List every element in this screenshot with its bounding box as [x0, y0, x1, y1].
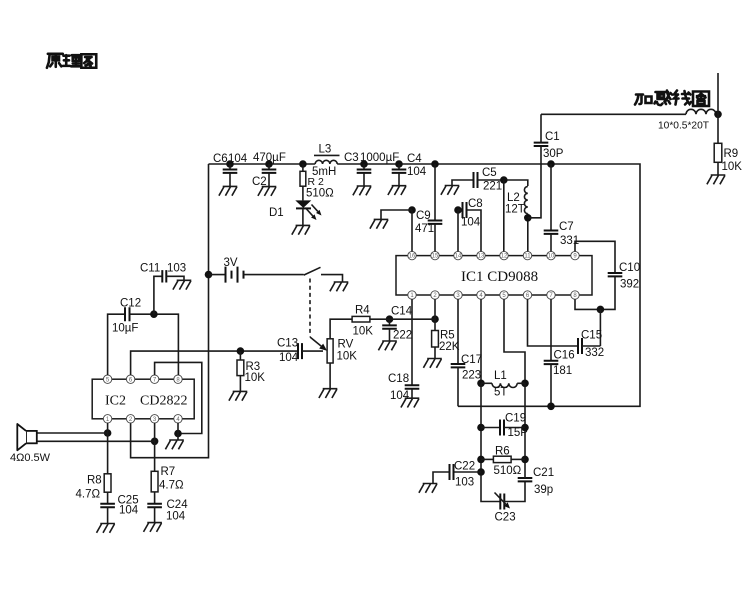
svg-text:IC2: IC2	[105, 394, 126, 409]
svg-text:16: 16	[409, 254, 416, 260]
svg-text:14: 14	[455, 254, 462, 260]
svg-text:10K: 10K	[337, 351, 358, 363]
svg-text:C14: C14	[391, 306, 413, 318]
svg-text:C2: C2	[252, 176, 267, 188]
svg-text:C16: C16	[554, 350, 575, 362]
svg-text:221: 221	[483, 181, 502, 193]
svg-text:39p: 39p	[534, 484, 553, 496]
svg-text:C15: C15	[581, 330, 602, 342]
svg-text:C12: C12	[120, 298, 141, 310]
svg-text:4Ω0.5W: 4Ω0.5W	[10, 452, 51, 464]
svg-text:R5: R5	[440, 330, 455, 342]
svg-text:C23: C23	[495, 512, 516, 524]
svg-text:10*0.5*20T: 10*0.5*20T	[658, 121, 709, 132]
svg-text:L3: L3	[319, 144, 332, 156]
svg-text:C13: C13	[277, 338, 298, 350]
svg-text:22K: 22K	[439, 341, 460, 353]
svg-text:R 2: R 2	[308, 176, 325, 188]
svg-text:IC1 CD9088: IC1 CD9088	[461, 269, 538, 285]
svg-text:470µF: 470µF	[253, 152, 286, 164]
svg-text:104: 104	[228, 153, 248, 165]
svg-text:C18: C18	[388, 373, 409, 385]
svg-text:C21: C21	[533, 467, 554, 479]
svg-text:12: 12	[501, 254, 508, 260]
svg-text:R7: R7	[161, 466, 176, 478]
svg-text:10µF: 10µF	[112, 323, 138, 335]
svg-text:C19: C19	[505, 413, 526, 425]
svg-text:104: 104	[390, 390, 410, 402]
svg-text:3V: 3V	[224, 257, 238, 269]
svg-text:104: 104	[166, 511, 186, 523]
svg-text:30P: 30P	[543, 148, 564, 160]
svg-text:103: 103	[455, 477, 474, 489]
svg-text:RV: RV	[338, 339, 354, 351]
svg-text:392: 392	[620, 279, 639, 291]
svg-text:103: 103	[167, 263, 186, 275]
svg-text:1000µF: 1000µF	[360, 152, 399, 164]
svg-text:10K: 10K	[245, 372, 266, 384]
svg-text:C6: C6	[213, 153, 228, 165]
svg-text:R4: R4	[355, 305, 370, 317]
svg-text:C7: C7	[559, 221, 574, 233]
svg-text:11: 11	[524, 254, 531, 260]
svg-text:R8: R8	[87, 475, 102, 487]
svg-text:181: 181	[553, 365, 572, 377]
svg-text:C1: C1	[545, 131, 560, 143]
svg-text:R6: R6	[495, 446, 510, 458]
svg-text:5T: 5T	[494, 387, 507, 399]
svg-text:104: 104	[279, 352, 299, 364]
svg-text:223: 223	[462, 370, 481, 382]
svg-text:C17: C17	[461, 354, 482, 366]
svg-text:222: 222	[393, 330, 412, 342]
svg-text:10K: 10K	[722, 161, 743, 173]
svg-text:C4: C4	[407, 153, 422, 165]
svg-text:CD2822: CD2822	[140, 394, 187, 409]
svg-text:471: 471	[415, 223, 434, 235]
svg-text:104: 104	[407, 166, 427, 178]
svg-text:332: 332	[585, 347, 604, 359]
svg-text:15P: 15P	[508, 427, 529, 439]
svg-text:4.7Ω: 4.7Ω	[76, 489, 101, 501]
svg-text:10: 10	[548, 254, 555, 260]
svg-text:C10: C10	[619, 262, 640, 274]
svg-text:C24: C24	[167, 499, 189, 511]
svg-text:104: 104	[461, 217, 481, 229]
svg-text:C22: C22	[454, 461, 475, 473]
svg-text:4.7Ω: 4.7Ω	[159, 480, 184, 492]
svg-text:10K: 10K	[353, 326, 374, 338]
svg-text:C5: C5	[482, 167, 497, 179]
svg-text:D1: D1	[269, 207, 284, 219]
svg-text:510Ω: 510Ω	[494, 465, 522, 477]
svg-text:R9: R9	[724, 148, 739, 160]
svg-text:13: 13	[478, 254, 485, 260]
svg-text:104: 104	[119, 505, 139, 517]
svg-text:L1: L1	[494, 370, 507, 382]
svg-text:12T: 12T	[505, 204, 525, 216]
svg-text:C8: C8	[468, 198, 483, 210]
svg-text:15: 15	[432, 254, 439, 260]
svg-text:L2: L2	[507, 192, 520, 204]
svg-text:C3: C3	[344, 152, 359, 164]
svg-text:510Ω: 510Ω	[306, 188, 334, 200]
svg-text:C9: C9	[416, 210, 431, 222]
svg-text:C11: C11	[140, 263, 160, 275]
